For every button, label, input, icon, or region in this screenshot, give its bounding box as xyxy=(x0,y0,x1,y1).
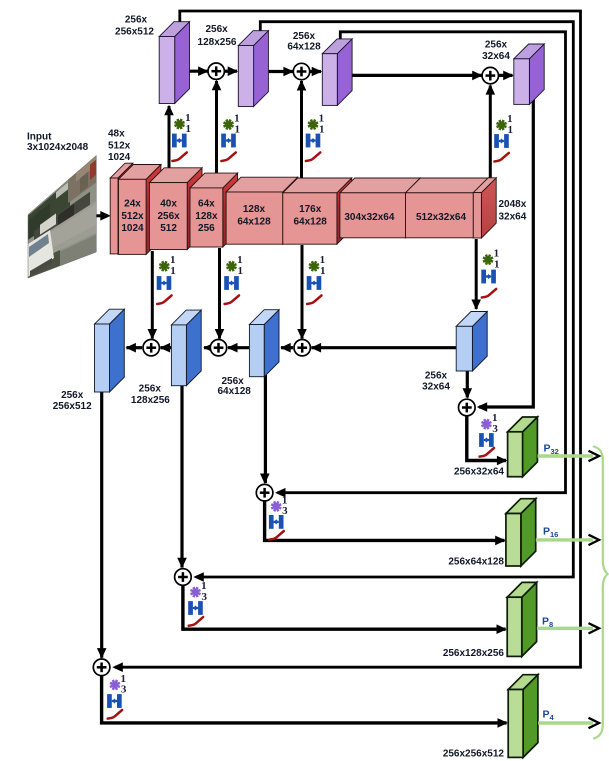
arrowhead down col2 into adder B2 xyxy=(215,329,225,340)
svg-text:128x: 128x xyxy=(195,211,218,222)
batchnorm icon down col3 xyxy=(307,276,322,290)
wire purple box3 to adder T4 xyxy=(352,74,483,77)
arrowhead into box P16 xyxy=(495,536,506,546)
svg-text:1024: 1024 xyxy=(108,152,131,163)
svg-text:64x: 64x xyxy=(198,199,215,210)
conv icon (asterisk) P4 conv xyxy=(110,680,120,690)
batchnorm icon up col2 xyxy=(221,134,236,148)
wire up column 4 xyxy=(489,86,492,181)
svg-text:512x: 512x xyxy=(108,141,131,152)
svg-text:256x256x512: 256x256x512 xyxy=(443,749,505,760)
green arrow P8 xyxy=(537,627,593,630)
wire blue box C to adder B2 xyxy=(228,346,249,349)
svg-text:128x256: 128x256 xyxy=(198,37,237,48)
svg-text:64x128: 64x128 xyxy=(287,42,321,53)
arrowhead blue box A into adder P4 xyxy=(97,648,107,659)
arrowhead down col4 into blue box D xyxy=(471,300,481,311)
input image (street photo) xyxy=(28,156,96,279)
arrowhead blue box D into adder P32 xyxy=(463,388,473,399)
green box P8 256x128x256 xyxy=(507,582,536,656)
svg-text:1: 1 xyxy=(234,123,240,135)
backbone stage 24x512x1024 xyxy=(119,165,161,255)
backbone stage 176x64x128 xyxy=(283,178,352,244)
wire skip from purple box2 top to P8 adder xyxy=(196,22,573,577)
svg-text:48x: 48x xyxy=(108,129,125,140)
svg-text:1: 1 xyxy=(507,124,513,136)
arrowhead blue box B to adder B1 xyxy=(160,343,171,353)
wire up column 1 xyxy=(168,106,171,176)
arrowhead into box P32 xyxy=(497,456,508,466)
adder P16 xyxy=(256,484,273,501)
conv icon (asterisk) down col3 xyxy=(309,261,319,271)
svg-text:176x: 176x xyxy=(299,204,322,215)
relu icon P4 conv xyxy=(108,710,122,719)
output brace xyxy=(594,447,608,739)
arrowhead down col3 into adder B3 xyxy=(297,329,307,340)
blue box 256x64x128 xyxy=(249,310,279,377)
batchnorm icon P32 conv xyxy=(479,433,494,447)
wire adder T1 to purple box2 xyxy=(224,70,237,73)
svg-text:512: 512 xyxy=(160,223,177,234)
svg-text:256x32x64: 256x32x64 xyxy=(454,467,504,478)
backbone stage 512x32x64 xyxy=(406,178,489,238)
blue box 256x128x256 xyxy=(171,310,201,386)
green arrow P16 xyxy=(536,538,593,541)
wire blue box B down to P8 adder xyxy=(180,384,183,568)
wire P4 adder to box P4 xyxy=(102,674,507,723)
svg-text:32x64: 32x64 xyxy=(482,51,510,62)
svg-text:64x128: 64x128 xyxy=(218,386,252,397)
wire down column 4 xyxy=(475,239,478,309)
arrowhead adder B3 to blue box C xyxy=(280,343,291,353)
adder T2 (top row) xyxy=(293,63,309,79)
arrowhead purple box4 line into adder P32 xyxy=(477,402,488,412)
svg-text:256: 256 xyxy=(198,223,215,234)
arrowhead skip3 into adder P16 xyxy=(275,488,286,498)
blue box 256x256x512 xyxy=(95,309,125,392)
conv icon (asterisk) down col1 xyxy=(159,261,169,271)
blue box 256x32x64 xyxy=(456,312,487,372)
adder T1 (top row) xyxy=(208,63,224,79)
svg-text:256x128x256: 256x128x256 xyxy=(443,648,505,659)
wire up column 3 xyxy=(300,81,303,191)
svg-text:256x: 256x xyxy=(425,371,448,382)
arrowhead down col1 into adder B1 xyxy=(148,329,158,340)
arrowhead skip1 into adder P4 xyxy=(112,662,123,672)
batchnorm icon P8 conv xyxy=(188,601,203,615)
adder B2 (blue row) xyxy=(210,340,226,356)
conv icon (asterisk) P32 conv xyxy=(481,419,491,429)
arrowhead up col2 into adder T1 xyxy=(212,80,222,91)
arrowhead skip2 into adder P8 xyxy=(193,572,204,582)
conv icon (asterisk) down col2 xyxy=(227,261,237,271)
wire adder T2 to purple box3 xyxy=(309,70,321,73)
arrowhead purple box2 to adder T2 xyxy=(283,67,294,77)
svg-text:1: 1 xyxy=(494,258,500,270)
batchnorm icon up col3 xyxy=(306,134,321,148)
svg-text:64x128: 64x128 xyxy=(237,216,271,227)
backbone stem slab 48x512x1024 xyxy=(110,163,133,254)
adder P8 xyxy=(175,569,192,586)
arrowhead adder T1 to purple box2 xyxy=(228,66,239,76)
arrowhead adder B2 to blue box B xyxy=(203,343,214,353)
conv icon (asterisk) up col1 xyxy=(175,119,185,129)
svg-text:512x32x64: 512x32x64 xyxy=(416,212,466,223)
purple box 256x32x64 xyxy=(514,44,544,104)
purple box 256x128x256 xyxy=(238,31,268,107)
batchnorm icon P4 conv xyxy=(107,694,122,708)
svg-text:256x: 256x xyxy=(139,384,162,395)
green box P4 256x256x512 xyxy=(508,675,538,758)
green arrow P32 xyxy=(538,454,594,457)
svg-text:256x: 256x xyxy=(205,24,228,35)
arrowhead up col1 into purple box1 xyxy=(164,105,174,116)
wire blue box B to adder B1 xyxy=(161,346,172,349)
wire input to backbone xyxy=(97,214,108,217)
svg-text:64x128: 64x128 xyxy=(294,216,328,227)
relu icon up col3 xyxy=(306,152,320,161)
relu icon P8 conv xyxy=(189,617,203,626)
svg-text:Input: Input xyxy=(27,131,52,142)
wire adder T4 to purple box4 xyxy=(498,74,513,77)
wire up column 2 xyxy=(215,81,218,186)
green box P16 256x64x128 xyxy=(506,499,536,566)
relu icon P32 conv xyxy=(480,448,494,457)
backbone stage 40x256x512 xyxy=(149,168,202,250)
arrowhead blue box C to adder B2 xyxy=(227,343,238,353)
svg-text:3x1024x2048: 3x1024x2048 xyxy=(27,142,89,153)
arrowhead up col3 into adder T2 xyxy=(297,80,307,91)
svg-text:1024: 1024 xyxy=(121,223,144,234)
purple box 256x64x128 xyxy=(322,39,352,106)
wire P16 adder to box P16 xyxy=(265,500,505,541)
conv icon (asterisk) up col2 xyxy=(224,120,234,130)
batchnorm icon up col1 xyxy=(172,134,187,148)
arrowhead adder T4 to purple box4 xyxy=(503,71,514,81)
svg-text:1: 1 xyxy=(319,123,325,135)
arrowhead into box P8 xyxy=(497,624,508,634)
svg-text:256x: 256x xyxy=(485,40,508,51)
arrowhead blue box B into adder P8 xyxy=(177,558,187,569)
wire skip from purple box3 top to P16 adder xyxy=(278,32,566,493)
wire down column 2 xyxy=(218,248,221,339)
relu icon down col3 xyxy=(307,295,321,304)
svg-text:256x: 256x xyxy=(125,15,148,26)
svg-text:40x: 40x xyxy=(160,199,177,210)
wire down column 3 xyxy=(301,245,304,339)
svg-text:128x256: 128x256 xyxy=(131,395,170,406)
arrowhead purple box1 to adder T1 xyxy=(198,66,209,76)
adder B3 (blue row) xyxy=(294,340,310,356)
svg-text:1: 1 xyxy=(185,123,191,135)
wire adder B1 to blue box A xyxy=(127,346,143,349)
adder P32 xyxy=(459,399,476,416)
backbone stage 128x64x128 xyxy=(226,177,298,244)
adder B1 (blue row) xyxy=(143,340,159,356)
wire down column 1 xyxy=(151,251,154,339)
svg-text:256x512: 256x512 xyxy=(115,27,154,38)
arrowhead adder B1 to blue box A xyxy=(125,343,135,353)
svg-text:32x64: 32x64 xyxy=(499,211,527,222)
green arrow P4 xyxy=(538,721,593,724)
conv icon (asterisk) up col4 xyxy=(497,120,507,130)
wire blue box D down to P32 adder xyxy=(466,370,469,398)
svg-text:256x64x128: 256x64x128 xyxy=(448,557,504,568)
arrowhead into box P4 xyxy=(498,718,509,728)
svg-text:2048x: 2048x xyxy=(499,199,527,210)
wire blue box D to adder B3 xyxy=(312,346,457,349)
svg-text:1: 1 xyxy=(170,265,176,277)
svg-text:1: 1 xyxy=(237,265,243,277)
wire purple box1 to adder T1 xyxy=(189,70,209,73)
backbone end slab 2048x32x64 xyxy=(473,178,496,238)
wire adder B3 to blue box C xyxy=(281,346,293,349)
svg-text:32x64: 32x64 xyxy=(422,381,450,392)
relu icon up col4 xyxy=(494,153,508,162)
conv icon (asterisk) down col4 xyxy=(483,255,493,265)
wire blue box A down to P4 adder xyxy=(100,391,103,658)
relu icon down col4 xyxy=(482,289,496,298)
wire P32 adder to box P32 xyxy=(467,415,506,461)
conv icon (asterisk) P16 conv xyxy=(271,501,281,511)
svg-text:1: 1 xyxy=(320,265,326,277)
batchnorm icon up col4 xyxy=(494,134,509,148)
conv icon (asterisk) up col3 xyxy=(308,120,318,130)
relu icon down col1 xyxy=(157,295,171,304)
arrowhead input into backbone xyxy=(100,211,111,221)
wire skip from purple box1 top to P4 adder xyxy=(115,11,581,667)
arrowhead blue box C into adder P16 xyxy=(260,474,270,485)
svg-text:256x: 256x xyxy=(157,211,180,222)
relu icon up col1 xyxy=(172,152,186,161)
arrowhead purple box3 to adder T4 xyxy=(472,71,483,81)
svg-text:304x32x64: 304x32x64 xyxy=(344,212,394,223)
adder T4 (top row) xyxy=(482,67,498,83)
conv icon (asterisk) P8 conv xyxy=(191,587,201,597)
batchnorm icon down col1 xyxy=(157,276,172,290)
backbone stage 64x128x256 xyxy=(190,173,238,247)
wire P8 adder to box P8 xyxy=(183,584,506,629)
svg-text:512x: 512x xyxy=(121,211,144,222)
wire blue box C down to P16 adder xyxy=(264,375,267,483)
wire purple box2 to adder T2 xyxy=(269,70,295,73)
relu icon down col2 xyxy=(225,295,239,304)
batchnorm icon down col4 xyxy=(481,270,496,284)
wire adder B2 to blue box B xyxy=(204,346,209,349)
arrowhead up col4 into adder T4 xyxy=(486,84,496,95)
batchnorm icon down col2 xyxy=(224,276,239,290)
purple box 256x256x512 xyxy=(159,22,189,104)
relu icon up col2 xyxy=(221,152,235,161)
backbone stage 304x32x64 xyxy=(340,178,420,238)
relu icon P16 conv xyxy=(269,531,283,540)
svg-text:24x: 24x xyxy=(124,199,141,210)
green box P32 256x32x64 xyxy=(508,417,538,477)
arrowhead blue box D to adder B3 xyxy=(311,343,322,353)
batchnorm icon P16 conv xyxy=(269,515,284,529)
svg-text:128x: 128x xyxy=(243,204,266,215)
svg-text:256x512: 256x512 xyxy=(53,401,92,412)
svg-text:3: 3 xyxy=(121,684,127,696)
arrowhead adder T2 to purple box3 xyxy=(312,67,323,77)
adder P4 xyxy=(93,659,110,676)
wire purple box4 down to P32 adder xyxy=(479,96,533,407)
svg-text:256x: 256x xyxy=(61,390,84,401)
